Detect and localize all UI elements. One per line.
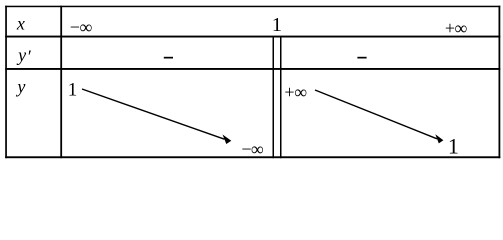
svg-text:1: 1 xyxy=(68,79,78,100)
svg-text:+∞: +∞ xyxy=(284,82,307,102)
svg-text:y: y xyxy=(15,76,25,96)
svg-text:y: y xyxy=(16,45,26,65)
svg-text:x: x xyxy=(16,14,25,34)
svg-text:−∞: −∞ xyxy=(70,17,93,37)
svg-text:1: 1 xyxy=(272,14,282,36)
svg-text:1: 1 xyxy=(448,133,459,158)
svg-text:−∞: −∞ xyxy=(241,139,263,159)
svg-text:+∞: +∞ xyxy=(445,18,468,38)
svg-text:′: ′ xyxy=(27,47,32,67)
